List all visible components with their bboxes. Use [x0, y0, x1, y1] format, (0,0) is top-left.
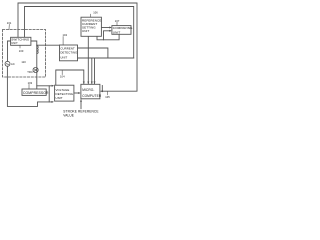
- wire arrowhead into microcomputer right edge: [100, 90, 103, 92]
- svg-text:103: 103: [28, 81, 33, 85]
- leader label 104: [61, 70, 63, 74]
- wire voltage detecting to microcomputer arrow: [74, 92, 79, 94]
- arrowhead into voltage detecting top left: [52, 85, 55, 87]
- wire v2 from current wire down to microcomputer: [91, 58, 93, 84]
- arrowhead v1: [87, 82, 89, 85]
- leader label 103: [28, 84, 30, 88]
- svg-text:COMPARING: COMPARING: [113, 26, 133, 30]
- reference current setting unit box: [81, 17, 101, 36]
- svg-text:101: 101: [7, 21, 12, 25]
- leader label 101: [8, 25, 10, 30]
- leader label 107: [116, 22, 118, 25]
- compressor box: [22, 89, 46, 95]
- triac diagonal element: [34, 68, 38, 71]
- leader label 106: [90, 14, 92, 17]
- triac TRC symbol circle: [33, 67, 38, 72]
- arrowhead input a: [109, 27, 112, 29]
- wire inner top rail from switching unit over top down right side: [25, 7, 134, 59]
- svg-text:UNIT: UNIT: [56, 96, 63, 100]
- svg-text:UNIT: UNIT: [113, 30, 121, 34]
- svg-text:UNIT: UNIT: [82, 29, 89, 33]
- svg-text:106: 106: [93, 11, 98, 15]
- AC source circle: [5, 61, 10, 66]
- arrow stroke reference value into microcomputer: [80, 100, 82, 109]
- wire stub above microcomputer wire: [101, 86, 103, 92]
- arrowhead stroke reference: [80, 99, 82, 102]
- wire reference setting bottom to comparing unit bottom: [97, 34, 119, 39]
- svg-text:AC: AC: [11, 62, 15, 66]
- voltage detecting unit box: [55, 85, 74, 101]
- svg-text:UNIT: UNIT: [60, 55, 67, 59]
- svg-text:105: 105: [105, 95, 110, 99]
- wire voltage detecting up over to microcomputer: [56, 70, 84, 85]
- wire AC source bottom loop to voltage detecting: [7, 66, 52, 106]
- wire junction down beside compressor: [48, 86, 50, 102]
- microcomputer box: [81, 84, 100, 99]
- leader label 102: [62, 37, 64, 45]
- svg-text:VALUE: VALUE: [63, 114, 74, 118]
- svg-text:100: 100: [19, 49, 24, 53]
- svg-text:104: 104: [60, 75, 65, 79]
- svg-text:COMPUTER: COMPUTER: [82, 94, 102, 98]
- wire triac node to voltage detecting top: [37, 85, 53, 87]
- AC source tilde: [6, 63, 9, 64]
- arrowhead into microcomputer top: [83, 82, 85, 85]
- svg-text:TRC: TRC: [27, 70, 33, 74]
- wire AC source top to switching unit left: [8, 41, 11, 61]
- wire reference setting to comparing unit input a: [101, 27, 110, 29]
- arrowhead v2: [91, 82, 93, 85]
- wire motor line to current detecting unit: [37, 44, 60, 46]
- wire current detecting output lower: [78, 57, 134, 59]
- leader label 100: [19, 45, 21, 48]
- wire feedback up into comparing unit input b: [104, 31, 111, 40]
- arrowhead v3: [94, 82, 96, 85]
- arrowhead into voltage detecting bottom left: [52, 101, 55, 103]
- svg-text:110: 110: [21, 60, 26, 64]
- wire main motor line through coil and triac to compressor: [36, 45, 38, 89]
- svg-text:102: 102: [63, 33, 68, 37]
- wire switching unit output to motor line: [31, 41, 37, 45]
- dashed box 101 power section: [3, 30, 46, 78]
- wire current detecting output upper: [78, 48, 108, 58]
- svg-text:UNIT: UNIT: [11, 41, 18, 45]
- wire outer top rail from switching unit over top to microcomputer right edge: [18, 3, 137, 91]
- comparing unit box: [112, 26, 131, 35]
- leader label 105: [106, 91, 108, 94]
- svg-text:COMPRESSOR: COMPRESSOR: [23, 91, 49, 95]
- wire v1 reference setting down to microcomputer: [87, 36, 89, 83]
- switching unit box: [11, 37, 31, 45]
- wire v3 from lower current wire down to microcomputer: [94, 58, 96, 84]
- svg-text:MICRO-: MICRO-: [82, 88, 94, 92]
- svg-text:DETECTING: DETECTING: [60, 50, 77, 54]
- current detecting unit box: [60, 45, 78, 61]
- arrowhead input b: [109, 30, 112, 32]
- inductor coil bumps on motor line: [37, 46, 38, 54]
- arrowhead into microcomputer left: [78, 92, 81, 94]
- svg-text:107: 107: [115, 19, 120, 23]
